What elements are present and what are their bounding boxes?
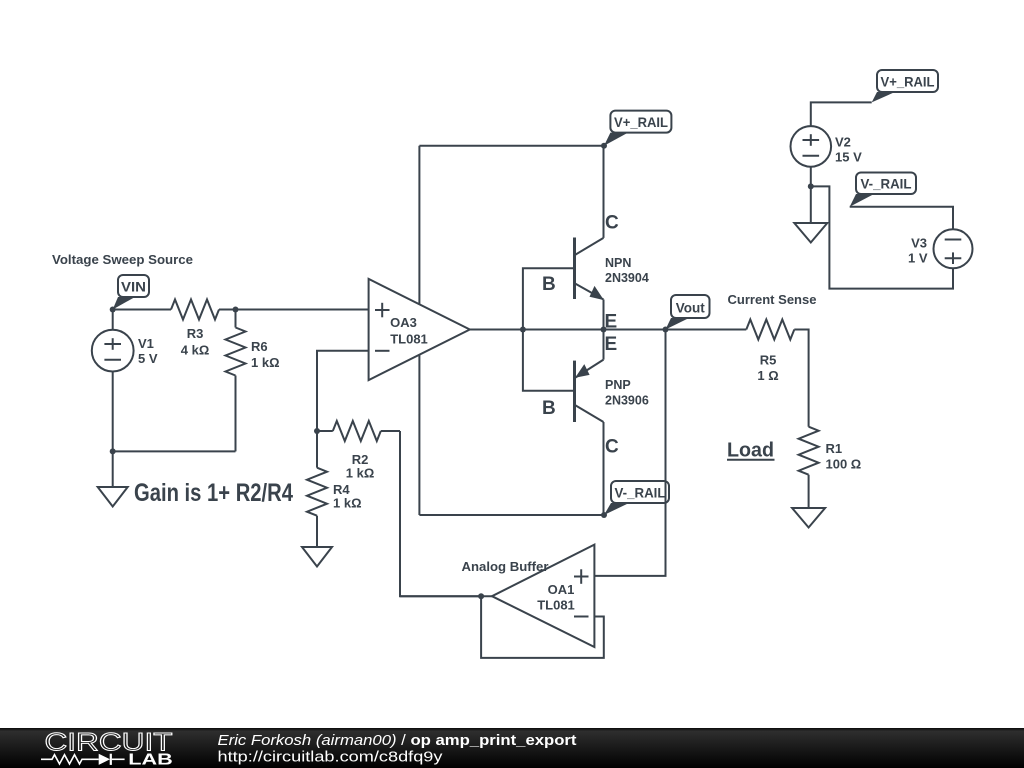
wire R2 feedback down — [400, 431, 481, 596]
svg-text:E: E — [605, 334, 618, 355]
flag V+_RAIL mid — [604, 111, 671, 146]
svg-text:OA1: OA1 — [548, 582, 575, 597]
svg-text:Current Sense: Current Sense — [728, 293, 817, 307]
svg-text:Vout: Vout — [676, 300, 705, 316]
wire Vout down to buffer — [594, 330, 665, 576]
svg-text:15 V: 15 V — [835, 150, 862, 165]
flag V+_RAIL top — [872, 70, 938, 102]
svg-text:1 kΩ: 1 kΩ — [346, 466, 375, 481]
transistor Q PNP 2N3906 — [542, 330, 649, 516]
voltage source V2 — [791, 102, 872, 186]
svg-text:1 V: 1 V — [908, 251, 928, 266]
svg-text:B: B — [542, 274, 556, 295]
svg-text:1 kΩ: 1 kΩ — [251, 355, 280, 370]
svg-text:Gain is 1+ R2/R4: Gain is 1+ R2/R4 — [134, 479, 293, 507]
wire V1 bottom loop — [113, 450, 236, 452]
svg-text:R1: R1 — [826, 441, 843, 456]
node output — [520, 327, 526, 333]
svg-text:5 V: 5 V — [138, 351, 158, 366]
logo resistor-diode symbol — [41, 754, 125, 765]
svg-text:LAB: LAB — [128, 752, 173, 768]
wire bottom rail — [419, 514, 604, 516]
resistor R5 — [746, 320, 794, 340]
wire Vout to R5 — [666, 329, 747, 331]
op-amp OA3 — [369, 279, 470, 380]
ground R4 — [302, 547, 332, 567]
svg-text:http://circuitlab.com/c8dfq9y: http://circuitlab.com/c8dfq9y — [218, 750, 444, 766]
resistor R3 — [171, 300, 219, 320]
node bottom rail — [601, 512, 607, 518]
wire OA3 minus input — [317, 351, 369, 431]
wire R3 to op-amp + input — [219, 309, 369, 311]
flag V-_RAIL right — [850, 173, 916, 207]
node R2/R4 junction — [314, 428, 320, 434]
node R3/R6 — [233, 307, 239, 313]
wire V3 top to flag — [850, 207, 953, 230]
wire VIN node to R3 — [113, 309, 171, 311]
svg-text:C: C — [605, 437, 619, 458]
svg-text:V2: V2 — [835, 135, 851, 150]
wire OA1 feedback loop — [481, 596, 604, 658]
resistor R2 — [317, 421, 400, 481]
svg-text:VIN: VIN — [121, 279, 146, 295]
svg-text:1 Ω: 1 Ω — [757, 368, 778, 383]
svg-text:V3: V3 — [911, 236, 927, 251]
ground V2 — [794, 223, 827, 243]
svg-text:4 kΩ: 4 kΩ — [181, 343, 210, 358]
node VIN — [110, 307, 116, 313]
wire NPN base branch — [523, 268, 573, 329]
op-amp OA1 (analog buffer) — [492, 545, 594, 647]
svg-text:R6: R6 — [251, 339, 268, 354]
svg-text:2N3906: 2N3906 — [605, 394, 649, 408]
svg-text:NPN: NPN — [605, 256, 631, 270]
resistor R4 — [307, 431, 362, 547]
voltage source V1 — [92, 310, 158, 452]
flag V-_RAIL mid — [604, 481, 669, 515]
wire PNP base branch — [523, 330, 573, 391]
node V1 bottom — [110, 448, 116, 454]
node Vout — [663, 327, 669, 333]
svg-text:R5: R5 — [760, 353, 777, 368]
resistor R1 — [799, 427, 862, 508]
wire OA3 V- supply — [418, 355, 420, 515]
wire V2 to ground — [810, 186, 812, 223]
svg-text:TL081: TL081 — [537, 598, 575, 613]
svg-text:Analog Buffer: Analog Buffer — [462, 560, 549, 574]
wire to ground — [112, 451, 114, 487]
ground R1 — [792, 508, 825, 528]
wire OA1 output — [400, 595, 492, 597]
svg-text:V+_RAIL: V+_RAIL — [614, 114, 668, 130]
wire top rail — [419, 145, 604, 147]
node OA1 output — [478, 593, 484, 599]
svg-text:OA3: OA3 — [390, 315, 417, 330]
svg-text:Voltage Sweep Source: Voltage Sweep Source — [52, 253, 193, 267]
wire V2 to V3 loop — [811, 186, 953, 288]
node top rail — [601, 143, 607, 149]
flag Vout — [666, 295, 710, 330]
node V2 bottom — [808, 183, 814, 189]
transistor Q NPN 2N3904 — [542, 146, 649, 333]
svg-text:100 Ω: 100 Ω — [826, 457, 862, 472]
svg-text:Load: Load — [727, 440, 774, 462]
node emitters — [601, 327, 607, 333]
svg-text:V-_RAIL: V-_RAIL — [861, 176, 912, 192]
svg-text:PNP: PNP — [605, 378, 631, 392]
flag VIN — [113, 275, 149, 310]
svg-text:B: B — [542, 398, 556, 419]
svg-text:V+_RAIL: V+_RAIL — [881, 74, 935, 90]
voltage source V3 — [908, 229, 973, 268]
svg-text:1 kΩ: 1 kΩ — [333, 496, 362, 511]
svg-text:V1: V1 — [138, 336, 154, 351]
ground V1 — [98, 487, 128, 507]
svg-text:V-_RAIL: V-_RAIL — [615, 485, 666, 501]
svg-text:C: C — [605, 213, 619, 234]
svg-text:2N3904: 2N3904 — [605, 271, 649, 285]
svg-text:R3: R3 — [187, 326, 204, 341]
wire OA3 output — [470, 329, 666, 331]
wire OA3 V+ supply — [418, 146, 420, 305]
wire R5 to R1 — [794, 330, 808, 427]
svg-text:Eric Forkosh (airman00) / op a: Eric Forkosh (airman00) / op amp_print_e… — [218, 733, 577, 749]
resistor R6 — [226, 310, 280, 452]
svg-text:TL081: TL081 — [390, 332, 428, 347]
